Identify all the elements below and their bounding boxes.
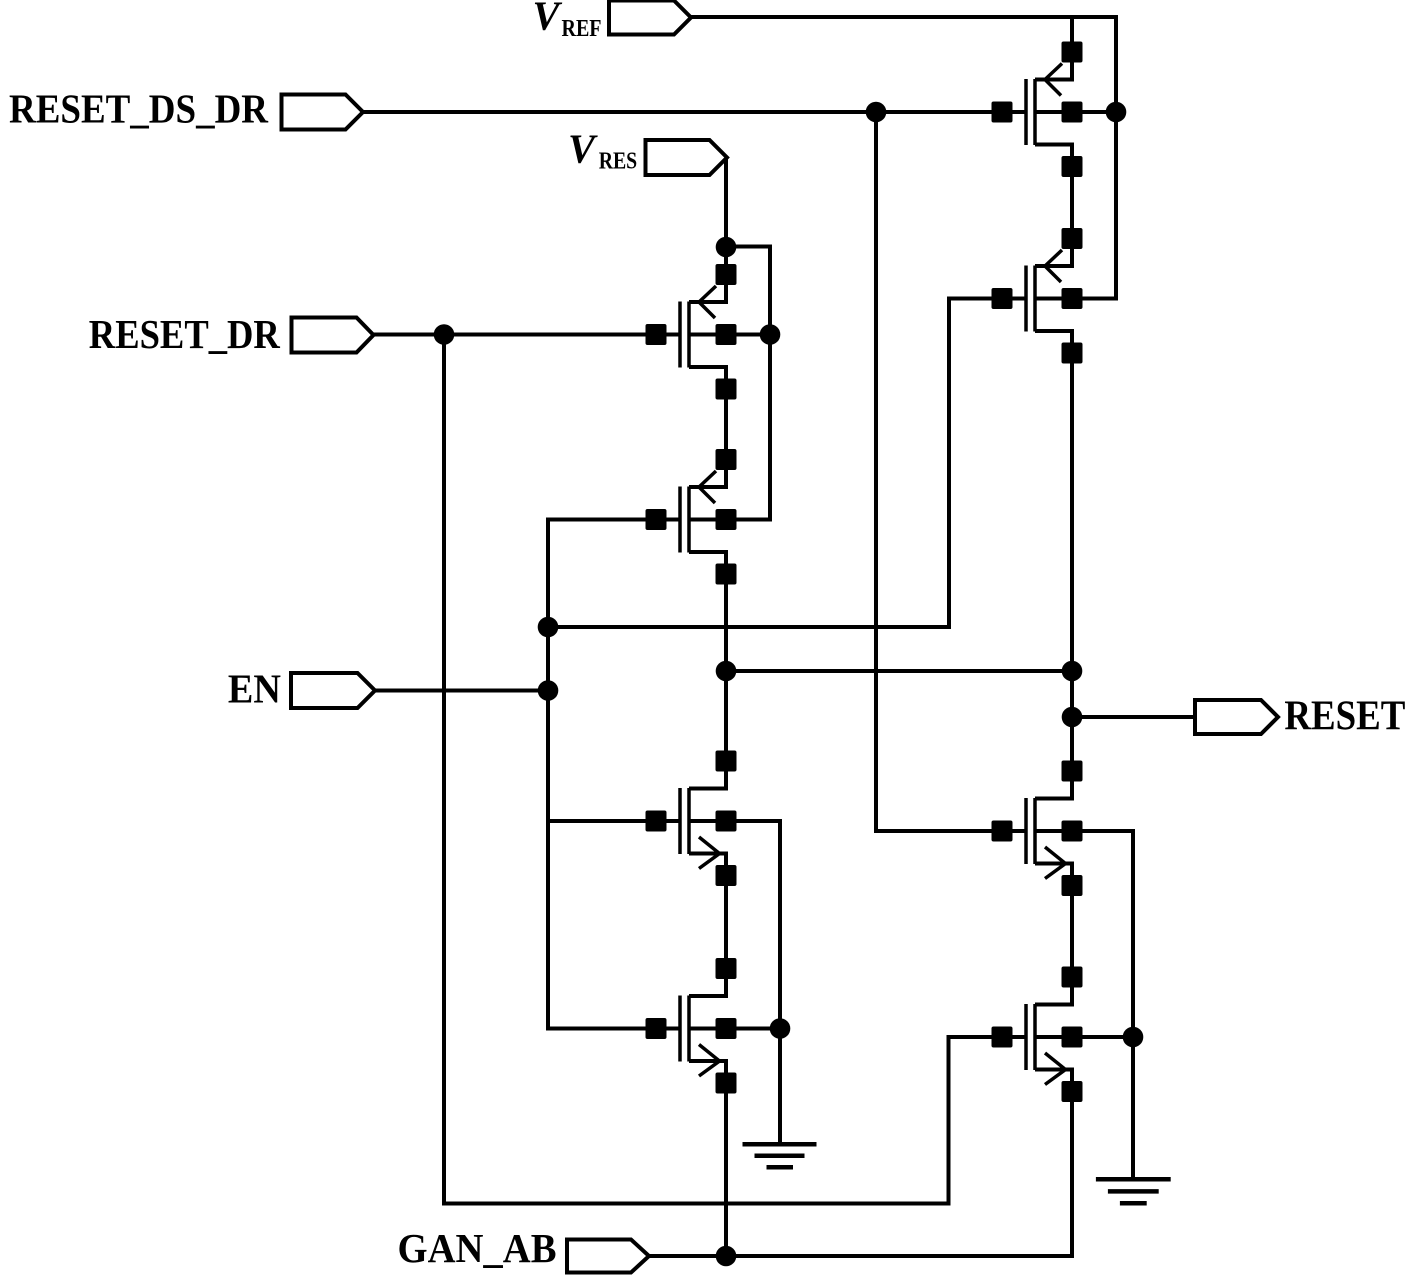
node right-branch output junction bbox=[1062, 661, 1083, 682]
wire M3L source to M4L drain bbox=[689, 854, 726, 997]
wire M4R source down to GAN_AB rail and tag bbox=[649, 1070, 1072, 1257]
node V_REF / M5 bulk junction bbox=[1106, 102, 1127, 123]
node RESET_DS_DR / x876 junction bbox=[866, 102, 887, 123]
wire M3R bulk down to ground bbox=[1035, 831, 1133, 1179]
svg-text:GAN_AB: GAN_AB bbox=[398, 1225, 557, 1271]
port tag GAN_AB bbox=[567, 1240, 649, 1273]
svg-text:RESET_DS_DR: RESET_DS_DR bbox=[9, 86, 269, 132]
ground right bbox=[1096, 1179, 1171, 1203]
wire M3R source to M4R drain bbox=[1035, 864, 1072, 1005]
svg-text:EN: EN bbox=[228, 666, 281, 712]
node M4 bulk / ground junction bbox=[770, 1018, 791, 1039]
wire V_REF down to M1R drain bbox=[1035, 17, 1072, 80]
svg-text:V: V bbox=[568, 126, 598, 172]
node left-branch output junction bbox=[716, 661, 737, 682]
node EN junction bbox=[538, 680, 559, 701]
wire M3L bulk down to ground bbox=[689, 821, 780, 1144]
wire M2L source down through node OUT to M3L drain bbox=[689, 552, 726, 789]
port tag RESET_DS_DR bbox=[282, 95, 364, 130]
wire M4R bulk stub bbox=[1035, 1035, 1133, 1039]
wire Vres bulk column x=770 bbox=[689, 247, 770, 520]
transistor M3 NMOS (EN-bus gate, left branch) bbox=[680, 761, 726, 876]
wire EN input to vertical bus bbox=[375, 689, 548, 693]
port tag V_RES bbox=[646, 140, 728, 175]
port tag RESET_DR bbox=[292, 318, 374, 353]
node M8 bulk / ground junction bbox=[1123, 1027, 1144, 1048]
transistor M8 NMOS (RESET_DR gate, bottom right) bbox=[1026, 977, 1072, 1092]
wire cross-coupling node to gate of M2R bbox=[548, 299, 1028, 628]
wire M1R bulk to V_REF column bbox=[1035, 110, 1116, 114]
svg-text:RES: RES bbox=[599, 149, 638, 175]
wire RESET node to output tag bbox=[1072, 715, 1195, 719]
transistor M2 PMOS (EN-bus gate, left branch) bbox=[680, 460, 726, 575]
node cross-coupling junction bbox=[538, 617, 559, 638]
port tag RESET output bbox=[1195, 700, 1278, 734]
transistor M1 PMOS (RESET_DR gate, V_RES drain) bbox=[680, 275, 726, 390]
node V_RES junction bbox=[716, 237, 737, 258]
wire RESET_DR branch down, across bottom, up to gate of M4R bbox=[444, 335, 1028, 1204]
wire M1L source to M2L drain bbox=[689, 367, 726, 487]
wire M1R source to M2R drain bbox=[1035, 145, 1072, 267]
transistor M7 NMOS (DS_DR gate, right) bbox=[1026, 771, 1072, 886]
node RESET_DR junction bbox=[434, 324, 455, 345]
node M1 bulk junction bbox=[760, 324, 781, 345]
wire V_RES tag down to M1L drain and top horiz bbox=[689, 158, 726, 303]
wire M4L source down to GAN_AB net bbox=[689, 1061, 726, 1256]
wire V_REF rail: tag tip right, down right side to M2R bulk bbox=[691, 17, 1116, 299]
port tag V_REF bbox=[609, 1, 691, 35]
transistor M5 PMOS (RESET_DS_DR gate, top right) bbox=[1026, 52, 1072, 167]
wire M3L gate stub bbox=[548, 819, 682, 823]
wire M4L bulk stub bbox=[689, 1027, 780, 1031]
node RESET output junction bbox=[1062, 707, 1083, 728]
wire EN bus: M2L gate down to M4L gate bbox=[548, 520, 682, 1029]
wire node DS_DR branch down x=876 to gate of M3R bbox=[876, 112, 1028, 831]
port tag EN bbox=[291, 673, 375, 708]
wire M2R source down through RESET node to M3R drain bbox=[1035, 331, 1072, 799]
wire output link between branches bbox=[726, 669, 1072, 673]
transistor M4 NMOS (EN-bus gate, bottom left) bbox=[680, 969, 726, 1084]
ground left bbox=[743, 1144, 817, 1167]
wire RESET_DS_DR to gate of M1R bbox=[363, 110, 1028, 114]
svg-text:V: V bbox=[533, 0, 563, 39]
svg-text:RESET_DR: RESET_DR bbox=[89, 311, 281, 357]
svg-text:REF: REF bbox=[562, 16, 602, 42]
svg-text:RESET: RESET bbox=[1284, 693, 1405, 740]
wire M1L bulk to Vres column bbox=[689, 333, 770, 337]
node GAN_AB junction bbox=[716, 1246, 737, 1267]
transistor M6 PMOS (cross-coupled gate, right) bbox=[1026, 239, 1072, 354]
wire RESET_DR to gate of M1L bbox=[374, 333, 682, 337]
